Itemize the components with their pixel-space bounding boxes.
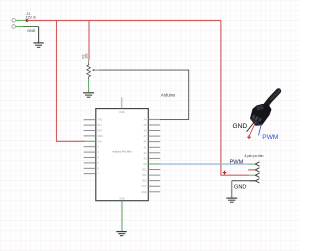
svg-text:10k: 10k — [85, 53, 89, 59]
svg-text:4-pin pc fan: 4-pin pc fan — [244, 154, 263, 158]
cable — [265, 91, 279, 107]
svg-text:D11: D11 — [142, 169, 147, 172]
pin 2 — [248, 169, 255, 171]
U1 left pin labels — [98, 119, 104, 176]
wire +12V top horizontal — [27, 20, 221, 22]
svg-text:PWM: PWM — [262, 134, 278, 141]
svg-text:RST: RST — [98, 130, 103, 133]
connector J1 — [12, 12, 36, 33]
svg-text:TXO: TXO — [98, 119, 103, 122]
ground GND4 — [226, 198, 237, 202]
svg-text:GND: GND — [119, 197, 125, 200]
U1 right pin labels — [141, 118, 147, 193]
svg-text:GND: GND — [141, 191, 147, 194]
pin 1 — [249, 163, 256, 165]
svg-text:RAW: RAW — [119, 111, 125, 114]
ground GND1 — [33, 43, 43, 47]
U1 right pin A4 (wiper net, connected) — [148, 118, 160, 120]
ground GND3 — [116, 232, 127, 236]
svg-text:GND: GND — [27, 29, 35, 33]
wire PWM (blue) — [160, 163, 249, 165]
wire J1 pin2 stub — [16, 26, 23, 28]
svg-text:12V in: 12V in — [26, 15, 36, 19]
wire fan GND — [232, 180, 256, 182]
wire +12V right drop to fan — [221, 21, 249, 176]
pointer line PWM — [259, 123, 262, 135]
svg-text:GND: GND — [98, 135, 104, 138]
svg-text:D12: D12 — [142, 174, 147, 177]
U1 left pin VIN (connected) — [84, 140, 96, 142]
U1 right pin D3 PWM out (connected) — [148, 163, 160, 165]
wire J1 pin1 stub — [16, 19, 27, 21]
pointer line GND — [247, 123, 254, 132]
fan connector photo annotation — [233, 91, 280, 142]
svg-text:RXI: RXI — [98, 124, 102, 127]
svg-text:PWM: PWM — [230, 159, 244, 165]
wire R2 wiper to IC (with arrowhead) — [92, 69, 189, 119]
U1 top pin — [121, 97, 123, 108]
pin 4 — [250, 180, 256, 182]
wire +12V drop to R2 — [88, 21, 90, 61]
svg-text:GND: GND — [233, 123, 248, 130]
pointer line + — [249, 122, 256, 136]
photo label + — [247, 135, 251, 139]
potentiometer R2 — [81, 53, 90, 78]
IC U1 Arduino Pro Mini — [96, 109, 149, 201]
pin slots — [252, 114, 262, 122]
U1 left pins — [84, 120, 96, 174]
svg-text:D13: D13 — [142, 180, 147, 183]
svg-text:Arduino Pro Mini: Arduino Pro Mini — [112, 150, 132, 154]
svg-text:GND: GND — [234, 185, 246, 191]
connector J2 4-pin pc fan — [244, 154, 263, 183]
U1 right pins — [148, 125, 160, 192]
body — [250, 104, 272, 126]
U1 bottom pin wire to ground — [121, 201, 123, 231]
svg-text:VCC: VCC — [142, 185, 147, 188]
wire J1 GND drop — [38, 27, 40, 43]
svg-text:VIN: VIN — [98, 140, 102, 143]
ground GND2 — [83, 93, 94, 97]
node junction at J1 pin1 — [26, 19, 29, 22]
node + label — [223, 171, 227, 175]
wire R2 bottom to ground — [88, 79, 90, 93]
wire +12V drop to VIN — [57, 21, 85, 142]
svg-text:Arduino: Arduino — [161, 92, 176, 97]
pin 3 — [249, 174, 256, 176]
